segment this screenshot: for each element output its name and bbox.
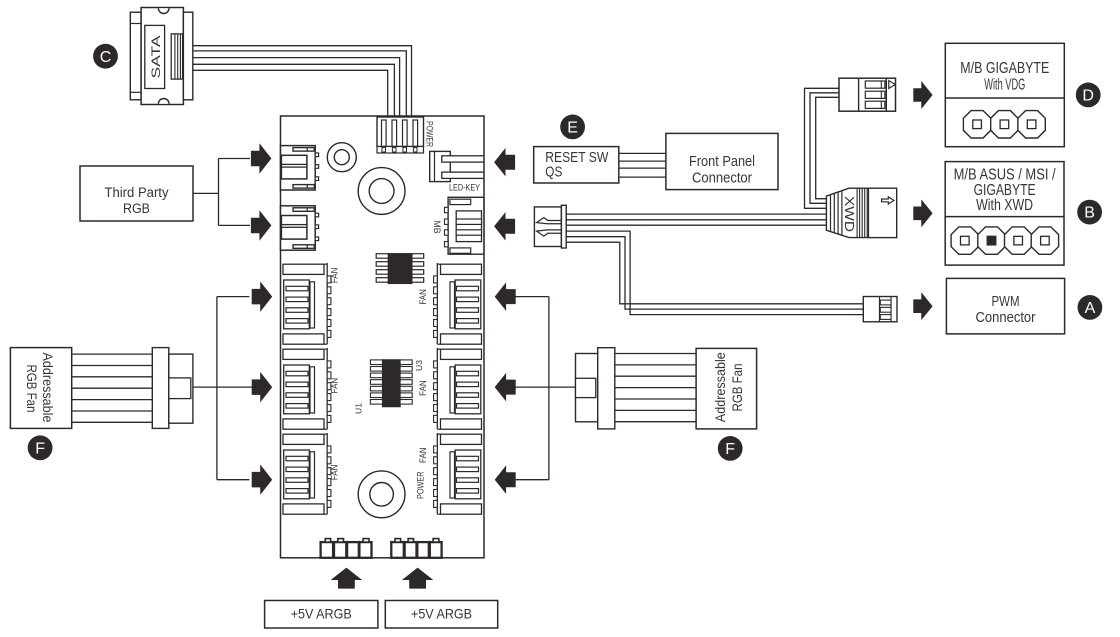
svg-text:E: E [567,120,578,137]
svg-text:RGB Fan: RGB Fan [24,365,39,413]
svg-text:+5V ARGB: +5V ARGB [411,607,472,622]
svg-text:RGB: RGB [123,201,150,217]
svg-text:FAN: FAN [418,447,429,463]
svg-text:Addressable: Addressable [713,352,728,422]
svg-text:FAN: FAN [330,465,341,481]
svg-text:SATA: SATA [149,36,163,79]
svg-text:U1: U1 [354,403,364,414]
svg-text:+5V ARGB: +5V ARGB [291,607,352,622]
svg-text:M/B GIGABYTE: M/B GIGABYTE [960,60,1049,77]
svg-text:FAN: FAN [330,268,341,284]
svg-text:MB: MB [431,221,442,234]
svg-text:PWM: PWM [992,294,1020,310]
svg-text:LED-KEY: LED-KEY [449,182,480,192]
svg-text:Addressable: Addressable [40,353,55,423]
svg-text:Third Party: Third Party [105,185,170,201]
svg-text:C: C [100,49,112,66]
svg-text:POWER: POWER [423,121,434,147]
svg-text:XWD: XWD [842,196,857,232]
svg-text:With VDG: With VDG [984,76,1025,93]
svg-text:Front Panel: Front Panel [689,154,755,170]
svg-text:FAN: FAN [418,380,429,396]
svg-text:B: B [1084,205,1095,222]
svg-text:FAN: FAN [330,378,341,394]
svg-text:POWER: POWER [416,471,427,499]
svg-text:Connector: Connector [692,171,752,187]
svg-text:With XWD: With XWD [976,197,1033,214]
svg-text:A: A [1085,300,1096,317]
svg-text:F: F [725,441,735,458]
svg-text:FAN: FAN [418,289,429,305]
svg-text:Connector: Connector [976,310,1036,326]
svg-text:D: D [1082,88,1094,105]
svg-text:RGB Fan: RGB Fan [730,364,745,412]
svg-text:F: F [35,440,45,457]
svg-text:QS: QS [545,165,562,181]
svg-text:U3: U3 [414,360,424,371]
